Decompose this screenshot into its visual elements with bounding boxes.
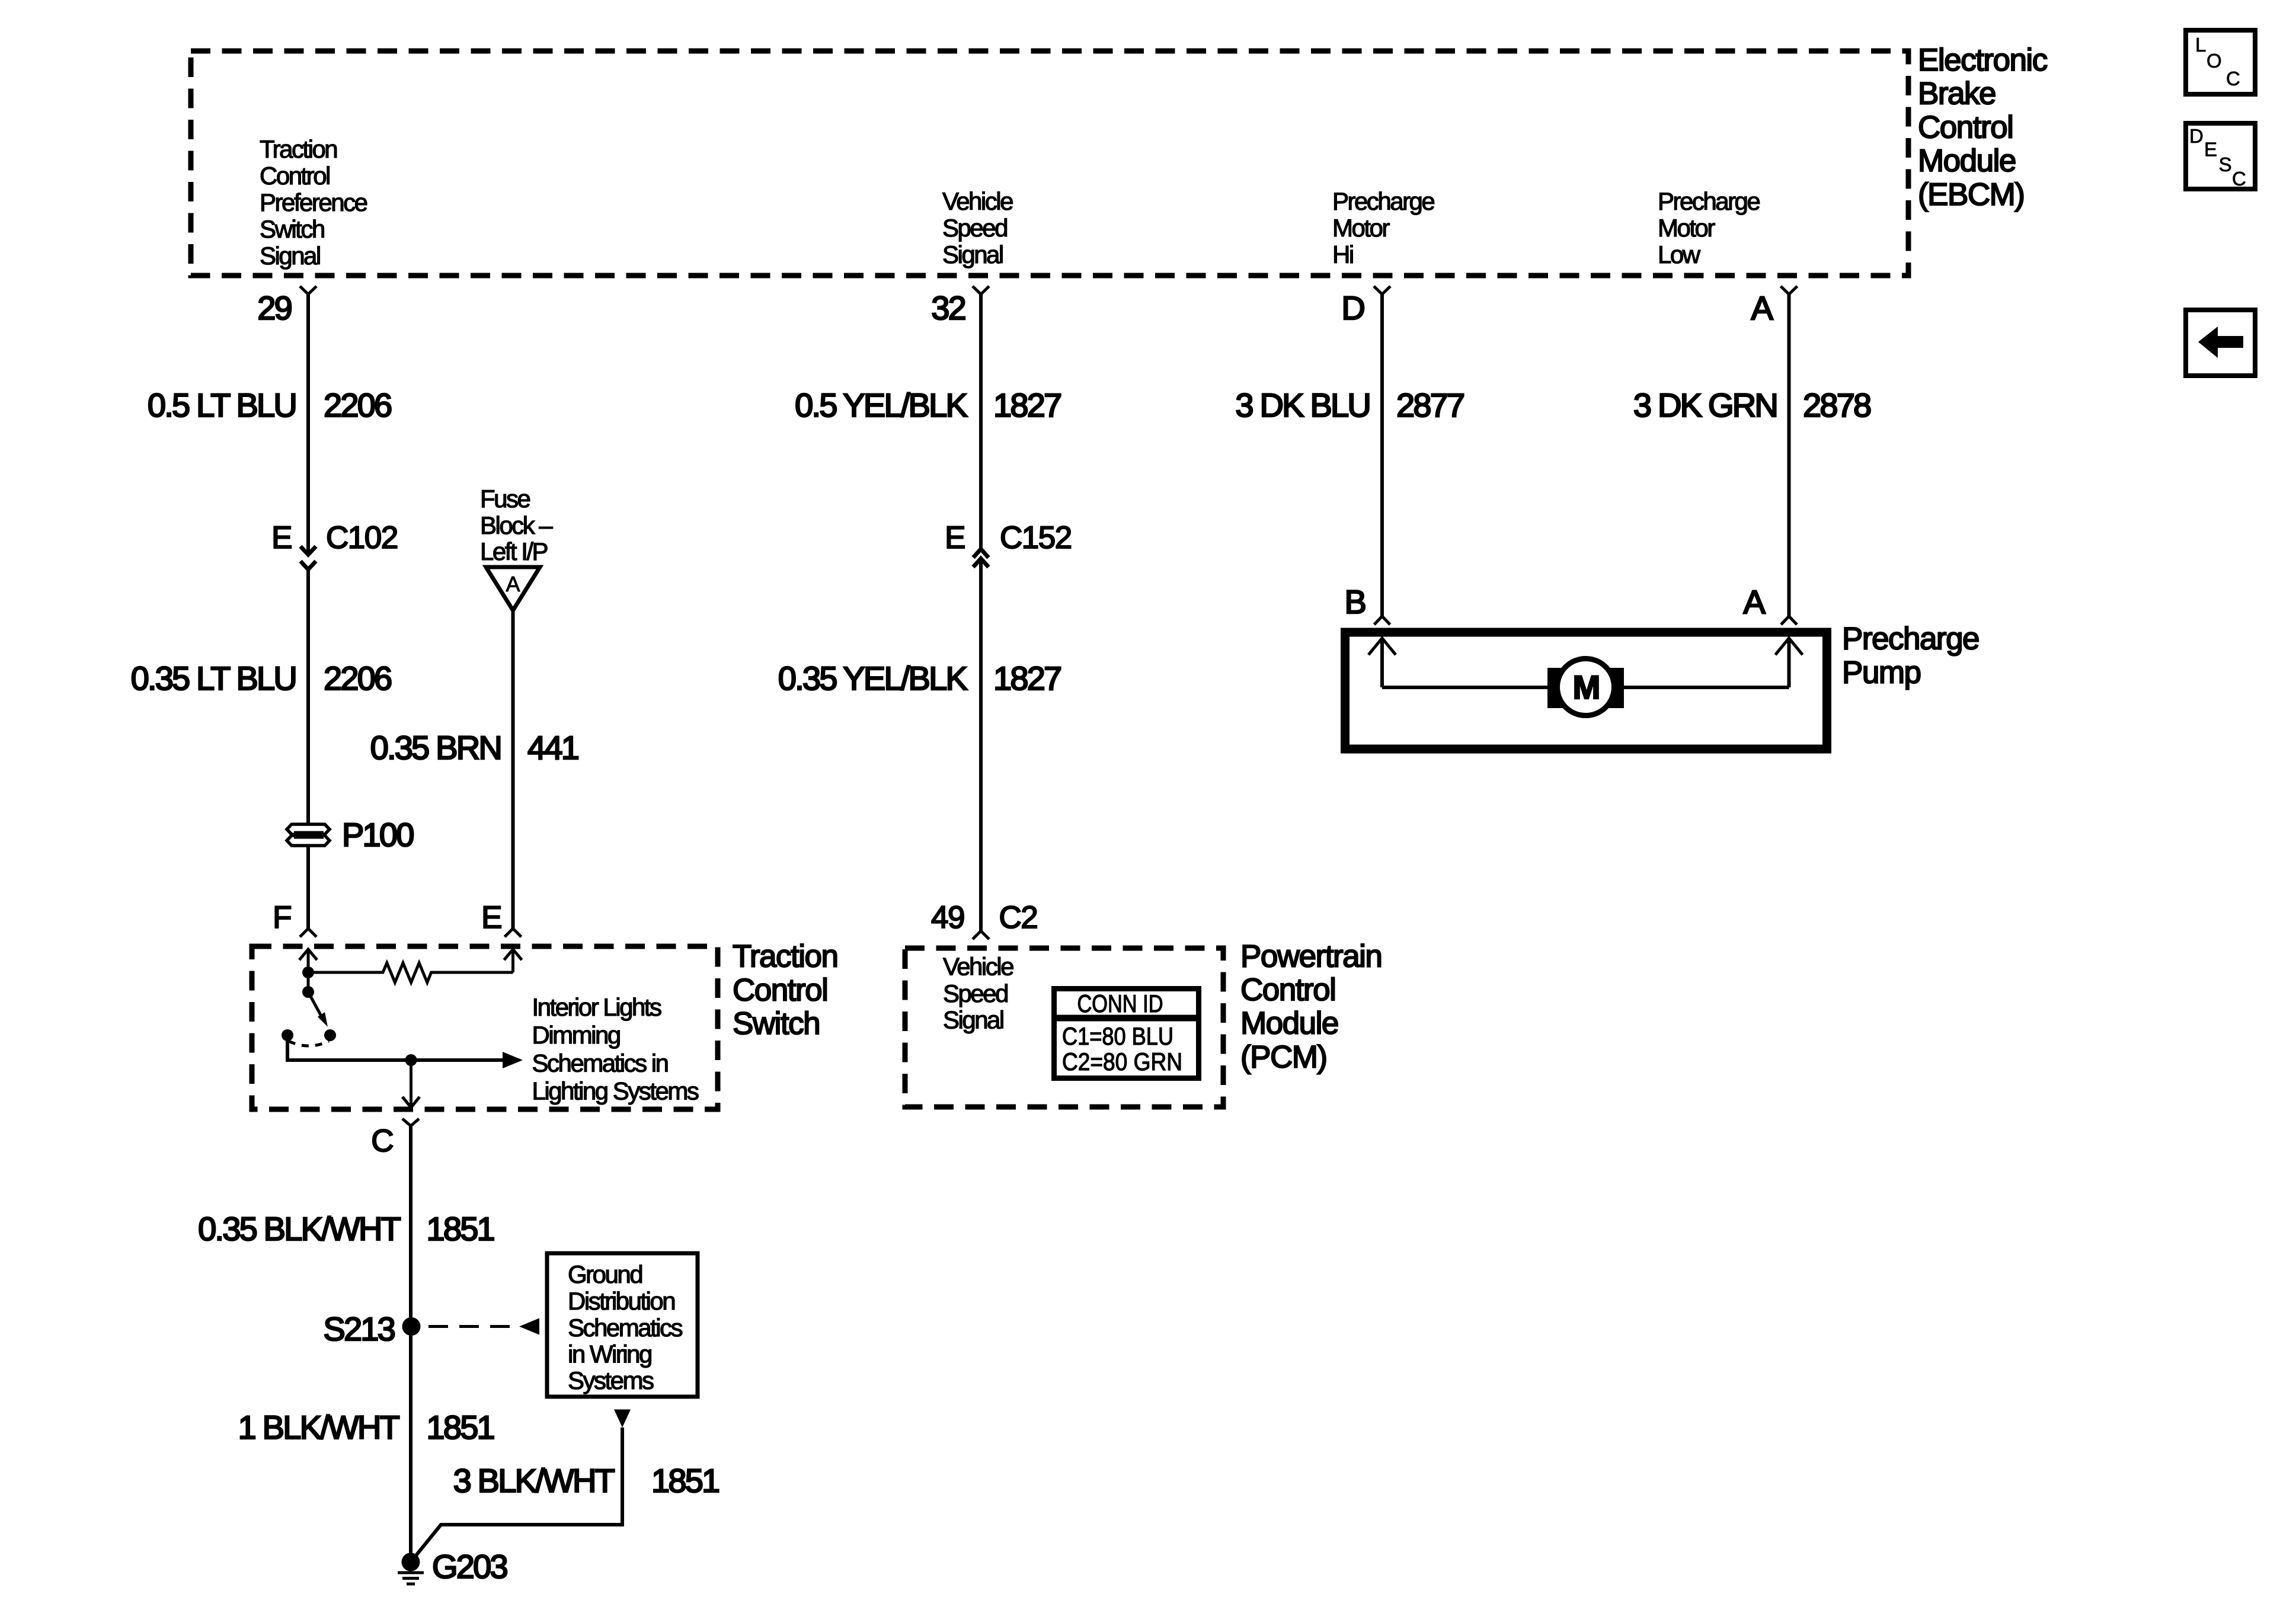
CONN ID table <box>1051 989 1201 1078</box>
svg-text:E: E <box>481 900 501 935</box>
svg-text:M: M <box>1573 668 1599 706</box>
junction node at switch common <box>302 986 314 998</box>
switch S1 Traction Control Switch dashed box <box>252 946 718 1109</box>
PCM name label: Powertrain Control Module (PCM) <box>1240 939 1382 1074</box>
switch contact node right <box>324 1029 336 1041</box>
svg-text:Interior Lights: Interior Lights <box>532 993 661 1021</box>
dashed travel arc between contacts <box>289 1041 329 1046</box>
svg-text:Motor: Motor <box>1332 214 1390 242</box>
EBCM internal label: Traction Control Preference Switch Signal <box>260 135 367 270</box>
svg-text:Vehicle: Vehicle <box>943 953 1013 981</box>
wire down to switch pin C with arrow <box>402 1060 420 1108</box>
wire 1851 from note to ground <box>411 1427 622 1562</box>
connector fork at pump pin B <box>1374 616 1390 625</box>
connector fork at EBCM pin D <box>1374 286 1390 295</box>
svg-text:Module: Module <box>1918 143 2016 178</box>
connector fork at pump pin A <box>1781 616 1797 625</box>
svg-text:29: 29 <box>257 289 291 327</box>
svg-text:Electronic: Electronic <box>1918 43 2048 78</box>
svg-text:C2=80 GRN: C2=80 GRN <box>1062 1048 1182 1076</box>
connector fork at EBCM pin A <box>1781 286 1798 295</box>
junction node at resistor tap <box>302 966 314 978</box>
splice S213 node <box>402 1317 421 1336</box>
wire 2206 upper segment <box>306 295 310 555</box>
svg-text:G203: G203 <box>432 1548 507 1585</box>
svg-text:441: 441 <box>527 729 578 766</box>
svg-text:C1=80 BLU: C1=80 BLU <box>1062 1022 1173 1050</box>
svg-text:Distribution: Distribution <box>568 1287 674 1315</box>
junction node on switch output <box>405 1054 417 1066</box>
svg-text:3 DK BLU: 3 DK BLU <box>1235 386 1370 424</box>
connector fork at switch pin C <box>402 1119 419 1126</box>
svg-text:1851: 1851 <box>427 1409 494 1446</box>
svg-text:0.5 YEL/BLK: 0.5 YEL/BLK <box>795 386 967 424</box>
svg-text:Switch: Switch <box>733 1006 820 1041</box>
svg-text:(PCM): (PCM) <box>1240 1039 1327 1074</box>
svg-text:CONN ID: CONN ID <box>1077 990 1163 1017</box>
EBCM name label: Electronic Brake Control Module (EBCM) <box>1918 43 2048 212</box>
DESC reference box <box>2186 123 2255 190</box>
svg-text:1851: 1851 <box>651 1462 719 1499</box>
svg-text:Control: Control <box>260 162 330 190</box>
svg-text:E: E <box>945 520 965 555</box>
svg-text:Precharge: Precharge <box>1332 187 1434 215</box>
svg-text:E: E <box>271 520 292 555</box>
svg-text:3 DK GRN: 3 DK GRN <box>1633 386 1777 424</box>
wire bus to motor right <box>1620 686 1789 689</box>
arrow into pump at A <box>1776 638 1803 687</box>
arrow into switch at pin F <box>299 949 317 992</box>
ground G203 symbol <box>398 1573 424 1584</box>
svg-text:Control: Control <box>1240 972 1335 1007</box>
svg-text:A: A <box>1751 289 1773 327</box>
module EBCM dashed box <box>191 51 1908 276</box>
svg-text:Precharge: Precharge <box>1658 187 1760 215</box>
svg-text:Ground: Ground <box>568 1260 642 1288</box>
svg-text:1827: 1827 <box>993 660 1061 697</box>
svg-text:C: C <box>371 1124 393 1158</box>
svg-text:1851: 1851 <box>427 1210 494 1247</box>
svg-text:F: F <box>273 900 291 935</box>
note label: Interior Lights Dimming Schematics in Lighting Systems <box>532 993 699 1105</box>
switch contact node left <box>282 1029 293 1041</box>
svg-text:Control: Control <box>733 972 827 1007</box>
svg-text:in Wiring: in Wiring <box>568 1340 651 1368</box>
svg-text:L: L <box>2195 34 2206 56</box>
svg-text:Left I/P: Left I/P <box>480 537 548 565</box>
ground G203 node <box>402 1553 420 1571</box>
svg-text:Control: Control <box>1918 110 2013 145</box>
arrowhead from note box down <box>614 1410 631 1428</box>
wire 2206 lower segment <box>306 569 310 824</box>
svg-text:Precharge: Precharge <box>1842 622 1979 657</box>
wire 441 from fuse block <box>511 610 515 929</box>
connector C152 symbol (chevron + arrow up) <box>973 549 989 568</box>
svg-text:2878: 2878 <box>1803 386 1870 424</box>
svg-text:0.35 YEL/BLK: 0.35 YEL/BLK <box>778 660 968 697</box>
wire from contact to interior lights arrow <box>287 1041 503 1060</box>
svg-text:Preference: Preference <box>260 188 367 216</box>
pump name label: Precharge Pump <box>1842 622 1979 690</box>
svg-text:Pump: Pump <box>1842 655 1920 690</box>
svg-text:Schematics: Schematics <box>568 1314 683 1342</box>
wire 1827 upper segment <box>979 295 983 548</box>
svg-text:A: A <box>506 572 520 596</box>
svg-text:S213: S213 <box>323 1310 394 1347</box>
component Precharge Pump box <box>1345 632 1827 749</box>
svg-text:Lighting Systems: Lighting Systems <box>532 1077 699 1105</box>
svg-text:2877: 2877 <box>1396 386 1464 424</box>
svg-text:Signal: Signal <box>943 1006 1003 1033</box>
connector fork at switch pin E <box>505 929 522 937</box>
arrowhead to interior lights schematic <box>503 1052 523 1068</box>
svg-text:O: O <box>2207 50 2222 72</box>
svg-text:A: A <box>1743 583 1766 620</box>
svg-text:32: 32 <box>931 289 965 327</box>
svg-text:49: 49 <box>931 900 964 935</box>
svg-text:Vehicle: Vehicle <box>942 187 1013 215</box>
connector fork at EBCM pin 29 <box>300 286 316 295</box>
svg-text:Low: Low <box>1658 241 1701 268</box>
svg-text:0.5 LT BLU: 0.5 LT BLU <box>148 386 296 424</box>
wire 2877 segment <box>1380 295 1384 617</box>
PCM internal label: Vehicle Speed Signal <box>943 953 1013 1034</box>
arrowhead to ground distribution note <box>519 1318 539 1335</box>
EBCM internal label: Precharge Motor Low <box>1658 187 1760 268</box>
svg-text:Switch: Switch <box>260 215 324 243</box>
svg-text:Block –: Block – <box>480 511 553 539</box>
LOC reference box <box>2186 30 2255 94</box>
arrow into pump at B <box>1368 638 1396 687</box>
svg-text:C: C <box>2226 68 2240 89</box>
svg-text:Speed: Speed <box>943 980 1008 1007</box>
switch name label: Traction Control Switch <box>733 939 838 1041</box>
svg-text:3 BLK/WHT: 3 BLK/WHT <box>453 1462 615 1499</box>
svg-text:E: E <box>2204 139 2217 161</box>
svg-text:2206: 2206 <box>324 660 391 697</box>
splice P100 symbol <box>287 824 330 846</box>
back-arrow navigation box <box>2186 310 2255 376</box>
svg-text:1827: 1827 <box>993 386 1061 424</box>
svg-text:S: S <box>2219 153 2232 175</box>
svg-text:C152: C152 <box>1000 520 1072 555</box>
EBCM internal label: Vehicle Speed Signal <box>942 187 1013 268</box>
svg-text:C2: C2 <box>999 900 1038 935</box>
switch blade with arrowhead <box>308 992 328 1027</box>
svg-text:P100: P100 <box>342 816 413 853</box>
wire 2878 segment <box>1787 295 1791 617</box>
svg-text:0.35 BRN: 0.35 BRN <box>370 729 501 766</box>
dashed reference link from S213 <box>428 1325 519 1328</box>
connector fork at switch pin F <box>300 929 316 937</box>
svg-text:Motor: Motor <box>1658 214 1715 242</box>
svg-text:C102: C102 <box>326 520 398 555</box>
connector fork at PCM pin 49 <box>973 931 989 939</box>
svg-text:2206: 2206 <box>324 386 391 424</box>
svg-text:(EBCM): (EBCM) <box>1918 177 2024 212</box>
wire bus to motor left <box>1382 686 1552 689</box>
motor M1 precharge pump motor <box>1547 659 1624 716</box>
svg-text:Brake: Brake <box>1918 76 1996 111</box>
wire 2206 to switch pin F <box>306 846 310 929</box>
svg-text:Schematics in: Schematics in <box>532 1049 668 1077</box>
EBCM internal label: Precharge Motor Hi <box>1332 187 1434 268</box>
svg-text:0.35 LT BLU: 0.35 LT BLU <box>131 660 296 697</box>
wire 1827 lower segment <box>979 559 983 932</box>
svg-text:Module: Module <box>1240 1006 1338 1041</box>
svg-text:Speed: Speed <box>942 214 1007 242</box>
resistor R (dimming) <box>308 963 513 982</box>
connector C102 symbol (arrow + chevron) <box>300 546 316 569</box>
svg-text:Signal: Signal <box>942 241 1003 268</box>
fuse block triangle terminal A <box>486 567 540 610</box>
svg-text:Traction: Traction <box>260 135 337 163</box>
wire 1851 ground segment <box>409 1126 412 1562</box>
svg-text:Fuse: Fuse <box>480 485 530 513</box>
module PCM dashed box <box>905 948 1223 1107</box>
svg-text:Traction: Traction <box>733 939 838 974</box>
note box: Ground Distribution Schematics in Wiring Systems <box>547 1253 698 1397</box>
connector fork at EBCM pin 32 <box>973 286 989 295</box>
svg-text:1 BLK/WHT: 1 BLK/WHT <box>238 1409 399 1446</box>
svg-text:0.35 BLK/WHT: 0.35 BLK/WHT <box>198 1210 400 1247</box>
svg-text:C: C <box>2232 168 2246 190</box>
svg-text:D: D <box>1341 289 1364 327</box>
svg-text:Dimming: Dimming <box>532 1021 620 1049</box>
svg-text:Hi: Hi <box>1332 241 1353 268</box>
fuse block label: Fuse Block - Left I/P <box>480 485 553 565</box>
svg-text:D: D <box>2189 125 2204 147</box>
svg-text:B: B <box>1344 583 1365 620</box>
arrow into switch at pin E <box>504 949 522 972</box>
svg-text:Systems: Systems <box>568 1366 654 1394</box>
svg-text:Signal: Signal <box>260 242 320 270</box>
svg-text:Powertrain: Powertrain <box>1240 939 1382 974</box>
